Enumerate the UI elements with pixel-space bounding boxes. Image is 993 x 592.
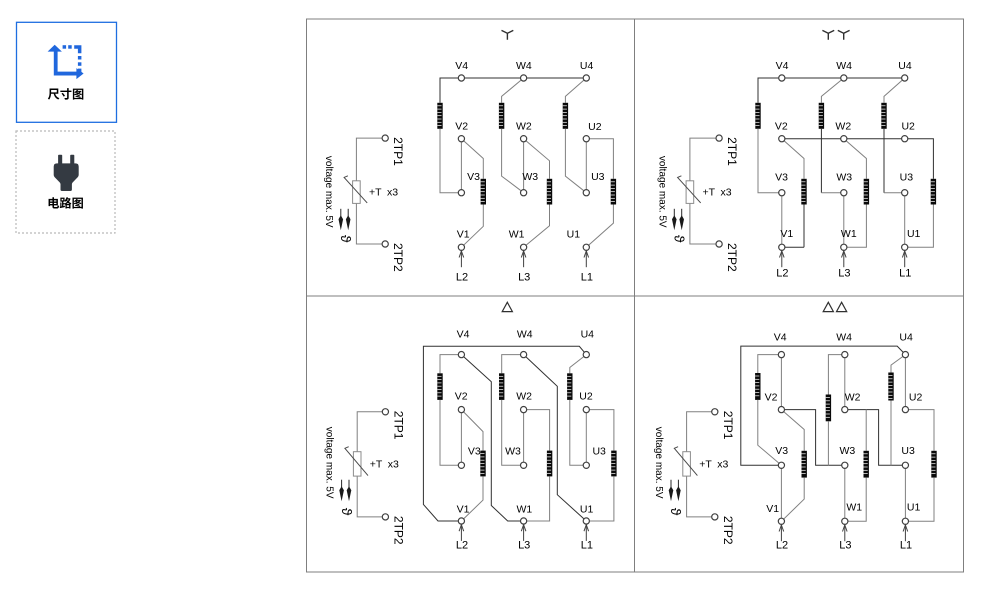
wire V4 to winding bbox=[758, 355, 782, 373]
svg-text:W1: W1 bbox=[517, 504, 533, 516]
terminal U3 bbox=[902, 190, 908, 196]
line feed arrow L2 bbox=[459, 524, 464, 541]
plug icon bbox=[54, 155, 79, 191]
delta symbol triangle (2nd) bbox=[837, 302, 847, 311]
wire thermistor to 2TP2 bbox=[356, 203, 382, 244]
wire coil to W3 bbox=[820, 129, 822, 193]
temperature influence arrows bbox=[341, 480, 343, 488]
wire 2TP1 to thermistor bbox=[356, 138, 382, 181]
wire parallel link V3-V1 bbox=[781, 193, 783, 248]
star symbol Y bbox=[502, 30, 514, 39]
winding U1-U2 bbox=[931, 451, 936, 478]
winding V1-V2 bbox=[802, 451, 807, 478]
wire V2 to winding bbox=[461, 410, 483, 451]
wire coil to W1 bbox=[524, 476, 550, 521]
button label 电路图 bbox=[49, 197, 83, 208]
thermistor diagonal stroke bbox=[678, 176, 701, 203]
terminal U2 bbox=[902, 407, 908, 413]
winding W3-W4 bbox=[499, 103, 504, 129]
terminal V2 bbox=[778, 407, 784, 413]
wire coil to V3 bbox=[440, 129, 461, 193]
terminal U4 bbox=[902, 75, 908, 81]
terminal U1 bbox=[583, 518, 589, 524]
terminal V2 bbox=[779, 136, 785, 142]
svg-text:V1: V1 bbox=[457, 229, 470, 241]
terminal U1 bbox=[902, 244, 908, 250]
winding U1-U2 bbox=[611, 179, 616, 205]
wire U4 to winding bbox=[565, 78, 586, 103]
wire coil to V1 bbox=[461, 476, 483, 521]
terminal U1 bbox=[902, 518, 908, 524]
sidebar button: circuit diagram bbox=[16, 131, 115, 233]
terminal W2 bbox=[842, 407, 848, 413]
wire series link U2-U3 bbox=[585, 139, 587, 193]
wire parallel link W3-W1 bbox=[843, 193, 845, 248]
svg-text:U4: U4 bbox=[898, 60, 912, 72]
wire W2 to winding bbox=[524, 139, 550, 179]
terminal V4 bbox=[779, 75, 785, 81]
svg-text:ϑ: ϑ bbox=[338, 235, 354, 243]
schematic outer frame bbox=[307, 19, 964, 572]
terminal W1 bbox=[521, 518, 527, 524]
wire delta ring V1 to U4 bbox=[423, 346, 586, 521]
winding W1-W2 bbox=[547, 179, 552, 205]
winding U3-U4 bbox=[888, 373, 893, 401]
winding W1-W2 bbox=[864, 451, 869, 478]
wire parallel link U3-U1 bbox=[904, 193, 906, 248]
dimension icon: dashed square bbox=[63, 45, 82, 72]
svg-text:ϑ: ϑ bbox=[672, 235, 688, 243]
dimension icon: L-arrow bbox=[48, 45, 84, 79]
wire coil to W3 bbox=[502, 129, 524, 193]
svg-text:U1: U1 bbox=[580, 504, 594, 516]
terminal V4 bbox=[778, 352, 784, 358]
winding U3-U4 bbox=[567, 373, 572, 400]
wire V2 to winding bbox=[782, 139, 804, 179]
winding V3-V4 bbox=[755, 103, 760, 129]
svg-text:V3: V3 bbox=[775, 172, 788, 184]
thermistor diagonal stroke bbox=[674, 447, 697, 476]
terminal V3 bbox=[779, 190, 785, 196]
wire W4 to winding bbox=[821, 78, 843, 103]
svg-text:U4: U4 bbox=[581, 329, 595, 341]
winding W3-W4 bbox=[819, 103, 824, 129]
terminal W3 bbox=[521, 190, 527, 196]
wire V4 to winding bbox=[440, 355, 461, 374]
svg-text:2TP2: 2TP2 bbox=[721, 516, 735, 545]
svg-text:+T: +T bbox=[370, 458, 383, 470]
winding V3-V4 bbox=[437, 103, 442, 129]
wire coil to V3 bbox=[440, 400, 461, 465]
svg-text:x3: x3 bbox=[721, 187, 732, 199]
svg-text:voltage max. 5V: voltage max. 5V bbox=[323, 156, 334, 228]
wire parallel link W3-W1 bbox=[844, 465, 846, 521]
svg-text:U1: U1 bbox=[907, 228, 921, 240]
svg-text:2TP1: 2TP1 bbox=[725, 137, 739, 166]
terminal W1 bbox=[842, 518, 848, 524]
wire U4 to winding bbox=[884, 78, 905, 103]
thermistor PTC body bbox=[353, 452, 361, 476]
wire 2TP1 to thermistor bbox=[690, 138, 716, 181]
terminal V1 bbox=[779, 244, 785, 250]
winding U1-U2 bbox=[931, 179, 936, 205]
terminal W4 bbox=[521, 75, 527, 81]
terminal U1 bbox=[583, 244, 589, 250]
wire coil to W1 bbox=[844, 205, 867, 248]
svg-text:U2: U2 bbox=[909, 391, 923, 403]
terminal W4 bbox=[842, 352, 848, 358]
wire thermistor to 2TP2 bbox=[690, 203, 716, 244]
svg-text:U4: U4 bbox=[580, 60, 594, 72]
winding V3-V4 bbox=[437, 373, 442, 400]
wire W4 to winding bbox=[828, 355, 844, 395]
line feed arrow L3 bbox=[521, 524, 526, 541]
terminal V1 bbox=[778, 518, 784, 524]
wire coil to U3 junction bbox=[890, 401, 892, 466]
button label 尺寸图 bbox=[48, 88, 83, 100]
wire W2 to winding bbox=[844, 139, 867, 179]
wire delta ring V3 to U4 bbox=[741, 346, 906, 465]
terminal U2 bbox=[583, 407, 589, 413]
svg-text:x3: x3 bbox=[387, 187, 398, 199]
terminal V3 bbox=[458, 190, 464, 196]
svg-text:L3: L3 bbox=[838, 267, 850, 279]
terminal 2TP1 bbox=[712, 409, 718, 415]
wire coil to U3 bbox=[883, 129, 885, 193]
terminal 2TP2 bbox=[716, 241, 722, 247]
wire coil to U1 bbox=[586, 205, 613, 248]
terminal V1 bbox=[458, 518, 464, 524]
wire 2TP1 to thermistor bbox=[357, 412, 382, 452]
svg-text:L3: L3 bbox=[518, 271, 530, 283]
svg-text:L1: L1 bbox=[581, 271, 593, 283]
thermistor PTC body bbox=[353, 181, 361, 204]
svg-text:W2: W2 bbox=[845, 391, 861, 403]
wire W4 to winding bbox=[502, 78, 524, 103]
wire coil to U1 bbox=[905, 205, 934, 248]
terminal W2 bbox=[841, 136, 847, 142]
winding W3-W4 bbox=[826, 395, 831, 422]
wire series link W2-W3 bbox=[523, 410, 525, 466]
svg-text:U2: U2 bbox=[901, 121, 915, 133]
terminal U3 bbox=[583, 462, 589, 468]
svg-text:V4: V4 bbox=[776, 60, 789, 72]
svg-text:V2: V2 bbox=[455, 120, 468, 132]
sidebar button: dimension drawing (selected) bbox=[17, 22, 117, 122]
wire V2 to winding bbox=[781, 410, 804, 451]
wire series link U2-U3 bbox=[585, 410, 587, 466]
svg-text:U2: U2 bbox=[579, 390, 593, 402]
svg-text:W3: W3 bbox=[840, 445, 856, 457]
wire coil to W3 junction bbox=[827, 421, 829, 465]
svg-text:V1: V1 bbox=[766, 503, 779, 515]
terminal 2TP2 bbox=[382, 514, 388, 520]
wire star-point bridge V4-W4-U4 bbox=[440, 78, 586, 103]
line feed arrow L3 bbox=[842, 251, 847, 268]
svg-text:L1: L1 bbox=[900, 540, 912, 552]
wire parallel link V3-V1 bbox=[780, 465, 782, 521]
svg-text:ϑ: ϑ bbox=[339, 508, 355, 516]
svg-text:V1: V1 bbox=[780, 228, 793, 240]
svg-text:W2: W2 bbox=[516, 120, 532, 132]
delta symbol triangle bbox=[502, 302, 512, 311]
svg-text:W3: W3 bbox=[836, 172, 852, 184]
temperature influence arrows bbox=[673, 209, 675, 217]
wire delta link W2 to U3 bbox=[845, 410, 906, 466]
terminal V1 bbox=[458, 244, 464, 250]
wire coil to V1 bbox=[781, 478, 804, 522]
wire delta link V4 to W1 bbox=[461, 355, 523, 521]
wire parallel link W4-W2 bbox=[844, 355, 846, 410]
line feed arrow L2 bbox=[780, 251, 785, 268]
terminal U3 bbox=[902, 462, 908, 468]
wire delta link V2 to W3 bbox=[781, 410, 844, 466]
svg-text:2TP2: 2TP2 bbox=[391, 516, 405, 545]
terminal 2TP1 bbox=[382, 135, 388, 141]
thermistor PTC body bbox=[683, 452, 691, 476]
wire U4 to winding bbox=[570, 355, 587, 374]
terminal V4 bbox=[458, 352, 464, 358]
wire coil to U1 bbox=[586, 476, 614, 521]
wire 2TP1 to thermistor bbox=[687, 412, 712, 452]
wire coil to V3 bbox=[758, 129, 782, 193]
thermistor diagonal stroke bbox=[345, 447, 368, 476]
terminal W3 bbox=[842, 462, 848, 468]
winding W1-W2 bbox=[864, 179, 869, 205]
svg-text:W1: W1 bbox=[841, 228, 857, 240]
svg-text:voltage max. 5V: voltage max. 5V bbox=[653, 427, 664, 499]
terminal 2TP2 bbox=[712, 514, 718, 520]
svg-text:V2: V2 bbox=[765, 391, 778, 403]
terminal W3 bbox=[841, 190, 847, 196]
wire coil to U3 bbox=[570, 400, 587, 465]
terminal U2 bbox=[902, 136, 908, 142]
svg-text:V3: V3 bbox=[468, 445, 481, 457]
wire parallel link U4-U2 bbox=[904, 355, 906, 410]
svg-text:W4: W4 bbox=[836, 332, 852, 344]
line feed arrow L1 bbox=[902, 251, 907, 268]
svg-text:L3: L3 bbox=[839, 540, 851, 552]
svg-text:L1: L1 bbox=[581, 540, 593, 552]
thermistor diagonal stroke bbox=[344, 176, 367, 203]
wire thermistor to 2TP2 bbox=[357, 476, 382, 517]
winding V1-V2 bbox=[801, 179, 806, 205]
wire U2 to winding bbox=[586, 410, 614, 451]
svg-text:W4: W4 bbox=[516, 60, 532, 72]
temperature influence arrows bbox=[670, 480, 672, 488]
star symbol Y (1st) bbox=[822, 30, 834, 39]
terminal 2TP1 bbox=[716, 135, 722, 141]
terminal W1 bbox=[521, 244, 527, 250]
svg-text:V3: V3 bbox=[467, 171, 480, 183]
svg-text:W3: W3 bbox=[505, 445, 521, 457]
line feed arrow L3 bbox=[843, 525, 848, 542]
line feed arrow L1 bbox=[584, 524, 589, 541]
wire delta link W4 to U1 bbox=[524, 355, 587, 521]
terminal W2 bbox=[521, 407, 527, 413]
terminal V3 bbox=[458, 462, 464, 468]
svg-text:U3: U3 bbox=[901, 445, 915, 457]
svg-text:2TP1: 2TP1 bbox=[391, 137, 405, 166]
svg-text:W1: W1 bbox=[509, 229, 525, 241]
svg-text:U1: U1 bbox=[907, 501, 921, 513]
svg-text:voltage max. 5V: voltage max. 5V bbox=[656, 156, 667, 228]
line feed arrow L2 bbox=[779, 525, 784, 542]
svg-text:2TP1: 2TP1 bbox=[721, 411, 735, 440]
svg-text:L2: L2 bbox=[776, 267, 788, 279]
terminal W3 bbox=[521, 462, 527, 468]
wire coil to V3 bbox=[758, 400, 782, 465]
thermistor PTC body bbox=[686, 181, 694, 204]
wire coil to W1 bbox=[845, 478, 866, 522]
svg-text:ϑ: ϑ bbox=[668, 508, 684, 516]
winding V3-V4 bbox=[755, 373, 760, 400]
wire coil to U3 bbox=[565, 129, 586, 193]
wire series link V2-V3 bbox=[460, 410, 462, 466]
wire coil to W3 bbox=[502, 400, 524, 465]
wire parallel link V4-V2 bbox=[780, 355, 782, 410]
terminal U4 bbox=[583, 352, 589, 358]
svg-text:2TP2: 2TP2 bbox=[391, 243, 405, 272]
svg-text:V3: V3 bbox=[775, 445, 788, 457]
terminal U3 bbox=[583, 190, 589, 196]
terminal V4 bbox=[458, 75, 464, 81]
svg-text:x3: x3 bbox=[717, 458, 728, 470]
winding U3-U4 bbox=[563, 103, 568, 129]
svg-text:W4: W4 bbox=[836, 60, 852, 72]
svg-text:U3: U3 bbox=[591, 171, 605, 183]
svg-text:U3: U3 bbox=[592, 445, 606, 457]
svg-text:+T: +T bbox=[369, 187, 382, 199]
svg-text:+T: +T bbox=[703, 187, 716, 199]
terminal W2 bbox=[521, 136, 527, 142]
svg-text:W4: W4 bbox=[517, 329, 533, 341]
wire W2 to winding bbox=[524, 410, 550, 451]
terminal U2 bbox=[583, 136, 589, 142]
line feed arrow L3 bbox=[521, 251, 526, 268]
svg-text:x3: x3 bbox=[388, 458, 399, 470]
quadrant divider horizontal bbox=[307, 295, 964, 297]
terminal W4 bbox=[521, 352, 527, 358]
terminal U4 bbox=[902, 352, 908, 358]
svg-text:V4: V4 bbox=[457, 329, 470, 341]
svg-text:W3: W3 bbox=[522, 171, 538, 183]
svg-text:V4: V4 bbox=[455, 60, 468, 72]
svg-text:voltage max. 5V: voltage max. 5V bbox=[324, 427, 335, 499]
svg-text:V1: V1 bbox=[457, 504, 470, 516]
winding W3-W4 bbox=[499, 373, 504, 400]
terminal V2 bbox=[458, 136, 464, 142]
svg-text:L2: L2 bbox=[456, 540, 468, 552]
winding V1-V2 bbox=[481, 179, 486, 205]
line feed arrow L1 bbox=[584, 251, 589, 268]
svg-text:L2: L2 bbox=[776, 540, 788, 552]
line feed arrow L2 bbox=[459, 251, 464, 268]
wire thermistor to 2TP2 bbox=[687, 476, 712, 517]
wire V2 to winding bbox=[461, 139, 483, 179]
winding U3-U4 bbox=[881, 103, 886, 129]
wire coil to U1 bbox=[905, 478, 934, 522]
svg-text:U4: U4 bbox=[899, 332, 913, 344]
wire coil to W1 bbox=[524, 205, 550, 248]
svg-text:L2: L2 bbox=[456, 271, 468, 283]
quadrant divider vertical bbox=[634, 19, 636, 572]
svg-text:L3: L3 bbox=[518, 540, 530, 552]
winding U1-U2 bbox=[611, 451, 616, 477]
wire coil to V1 bbox=[461, 205, 483, 248]
wire series link W2-W3 bbox=[523, 139, 525, 193]
wire parallel link U3-U1 bbox=[904, 465, 906, 521]
terminal W4 bbox=[841, 75, 847, 81]
terminal 2TP1 bbox=[382, 409, 388, 415]
svg-text:2TP2: 2TP2 bbox=[725, 243, 739, 272]
svg-text:2TP1: 2TP1 bbox=[391, 411, 405, 440]
svg-text:W1: W1 bbox=[846, 501, 862, 513]
wire series link V2-V3 bbox=[460, 139, 462, 193]
terminal W1 bbox=[841, 244, 847, 250]
terminal V3 bbox=[778, 462, 784, 468]
terminal U4 bbox=[583, 75, 589, 81]
svg-text:U1: U1 bbox=[567, 229, 581, 241]
terminal 2TP2 bbox=[382, 241, 388, 247]
svg-text:U3: U3 bbox=[900, 172, 914, 184]
svg-text:W2: W2 bbox=[516, 390, 532, 402]
svg-text:W2: W2 bbox=[835, 121, 851, 133]
winding W1-W2 bbox=[547, 451, 552, 477]
star symbol Y (2nd) bbox=[838, 30, 850, 39]
svg-text:V2: V2 bbox=[455, 390, 468, 402]
svg-text:+T: +T bbox=[699, 458, 712, 470]
wire star-point bridge V4-W4-U4 bbox=[758, 78, 905, 103]
wire coil to V1 bbox=[803, 205, 805, 248]
svg-text:L1: L1 bbox=[899, 267, 911, 279]
wire U2 to winding bbox=[586, 139, 613, 179]
svg-text:V4: V4 bbox=[774, 332, 787, 344]
winding V1-V2 bbox=[480, 451, 485, 477]
svg-text:U2: U2 bbox=[588, 121, 602, 133]
wire U2 to winding bbox=[905, 410, 934, 451]
temperature influence arrows bbox=[340, 209, 342, 217]
wire W4 to winding bbox=[502, 355, 524, 374]
line feed arrow L1 bbox=[903, 525, 908, 542]
svg-text:V2: V2 bbox=[775, 121, 788, 133]
wire U4 to winding bbox=[891, 355, 905, 373]
wire W2 junction to winding bbox=[865, 410, 867, 451]
terminal V2 bbox=[458, 407, 464, 413]
wire star-point bridge V2-W2-U2 bbox=[782, 139, 934, 179]
delta symbol triangle (1st) bbox=[823, 302, 833, 311]
